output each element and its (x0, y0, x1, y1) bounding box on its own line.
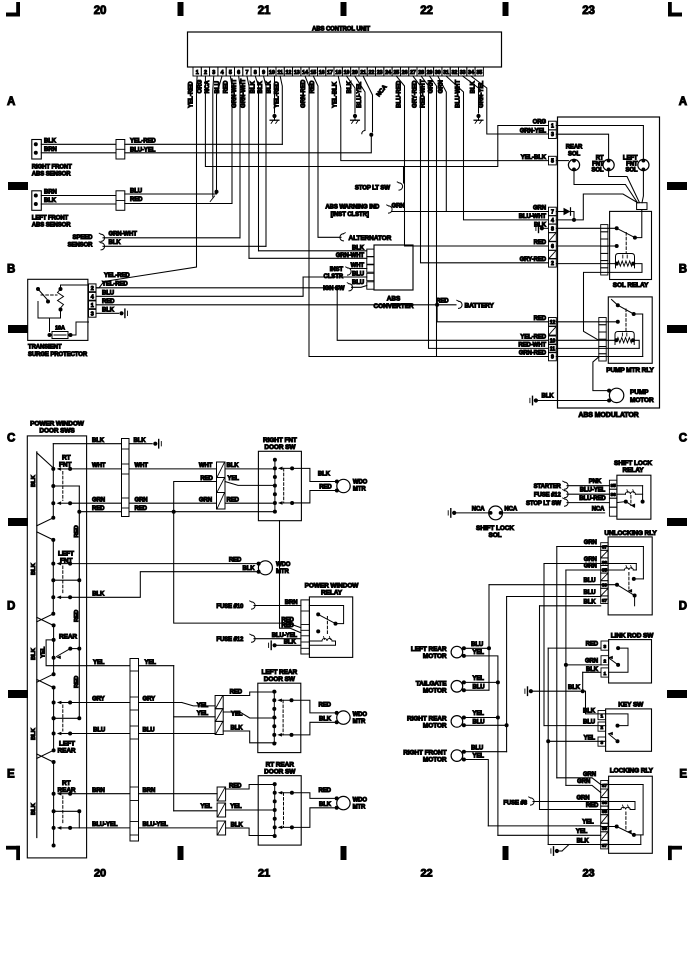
svg-text:BLK: BLK (583, 708, 596, 714)
link rod switch pins (601, 641, 609, 677)
GRN net 2 vertical (543, 564, 545, 726)
svg-text:22: 22 (420, 5, 433, 17)
svg-text:20: 20 (94, 5, 107, 17)
label GRN-YEL at modulator (520, 128, 547, 134)
svg-text:BLK: BLK (102, 307, 115, 313)
wire door sw RED to window motor 4 (292, 788, 337, 798)
svg-text:RED: RED (74, 525, 80, 537)
left rear door switch (258, 669, 301, 753)
rail label BLK (31, 474, 37, 487)
ground for lock switches (525, 672, 606, 714)
wire pump relay coil return to pin11 (556, 340, 639, 348)
wire door feed to window relay (280, 521, 301, 633)
pump relay common contact (612, 300, 620, 308)
svg-text:B: B (679, 264, 687, 276)
wire RED into rt rear door sw (226, 783, 276, 789)
solenoid junction block (637, 203, 647, 210)
svg-text:SHIFT LOCK: SHIFT LOCK (476, 525, 514, 532)
svg-text:YEL-RED: YEL-RED (274, 81, 280, 108)
svg-text:SOL: SOL (591, 168, 603, 174)
svg-text:POWER WINDOW: POWER WINDOW (30, 420, 85, 427)
svg-text:YEL: YEL (473, 676, 485, 682)
right front ABS sensor (32, 138, 72, 177)
wire speed sensor GRN-WHT (103, 237, 240, 239)
wire right front motor YEL (464, 760, 488, 826)
pin 30 wire GRN (to ABS warning net) (438, 76, 447, 212)
wire GRN 1 to unlocking relay (557, 540, 601, 547)
rail label BLK (31, 647, 37, 660)
wire tailgate motor BLU (464, 689, 489, 691)
shift lock relay strip (609, 480, 617, 516)
stop light switch feed BLU-RED (526, 496, 609, 507)
svg-text:BLK: BLK (231, 725, 244, 731)
svg-text:RED-WHT: RED-WHT (518, 343, 546, 349)
wire RT REAR mid row to bus stub (54, 809, 82, 828)
svg-text:WHT: WHT (199, 463, 213, 469)
pin 5 wire RED (to left front sensor) (224, 76, 232, 204)
door switch mid connector (RT FNT) (217, 462, 226, 509)
wire BLK to locking relay (548, 839, 601, 845)
svg-text:SOL RELAY: SOL RELAY (613, 282, 649, 289)
svg-text:RED: RED (92, 506, 105, 512)
fuse 8 feed to locking relay (503, 796, 600, 807)
svg-text:GRY-RED: GRY-RED (413, 80, 419, 108)
svg-text:BLK: BLK (267, 80, 273, 93)
svg-text:87: 87 (602, 545, 608, 551)
svg-text:RED: RED (102, 299, 115, 305)
svg-text:ABS SENSOR: ABS SENSOR (32, 171, 71, 177)
svg-text:BLK: BLK (92, 591, 105, 597)
link rod switch internals (608, 646, 628, 672)
svg-text:BLU: BLU (130, 189, 142, 195)
RED bus vertical (77, 486, 81, 720)
wire RED row to window motor 2 (70, 558, 259, 564)
svg-text:ABS WARNING IND: ABS WARNING IND (325, 205, 380, 211)
svg-text:20: 20 (352, 70, 358, 76)
svg-text:22: 22 (420, 868, 432, 880)
svg-text:GRN: GRN (135, 498, 148, 504)
pin 19 wire BLK to ground (346, 76, 355, 113)
svg-text:10: 10 (269, 70, 275, 76)
svg-text:SOL: SOL (568, 152, 580, 158)
inline connector pin20/sensor (362, 131, 374, 137)
svg-text:YEL: YEL (231, 712, 243, 718)
svg-text:12: 12 (286, 70, 292, 76)
wire RED into left rear door sw (223, 689, 276, 695)
pin 11 wire YEL-RED (to right front sensor) (274, 76, 282, 144)
rail label BLK (31, 802, 37, 815)
svg-text:GRN: GRN (576, 796, 589, 802)
svg-text:CONVERTER: CONVERTER (374, 303, 414, 310)
svg-text:3: 3 (91, 311, 94, 317)
svg-text:87: 87 (602, 843, 608, 849)
svg-text:BLK: BLK (31, 727, 37, 740)
pump motor relay box (606, 297, 654, 374)
power window door switches box (27, 420, 86, 858)
label BLK at key sw (583, 708, 596, 714)
svg-text:RED: RED (229, 558, 242, 564)
shift lock solenoid (448, 506, 605, 539)
key switch internals (606, 714, 628, 743)
wire sol relay coil return (584, 264, 643, 341)
svg-text:NCA: NCA (504, 506, 517, 512)
svg-text:RT: RT (62, 454, 71, 461)
svg-text:86: 86 (611, 492, 617, 498)
svg-text:11: 11 (277, 70, 283, 76)
svg-text:IGN SW: IGN SW (323, 286, 345, 292)
svg-text:BLU-RED: BLU-RED (579, 496, 606, 502)
svg-text:4: 4 (551, 218, 554, 224)
svg-text:YEL: YEL (584, 735, 596, 741)
svg-text:BLK: BLK (44, 138, 57, 144)
svg-text:UNLOCKING RLY: UNLOCKING RLY (604, 530, 657, 537)
pin 8 wire BLK (to ABS converter) (251, 76, 259, 251)
pin 33 wire BLK to ground (463, 76, 479, 113)
svg-text:MOTOR: MOTOR (630, 397, 654, 404)
pin 21 wire NCA (363, 76, 389, 132)
svg-text:RT REAR: RT REAR (266, 762, 295, 769)
svg-text:GRN-RED: GRN-RED (301, 79, 307, 108)
svg-text:9: 9 (262, 70, 265, 76)
svg-text:BLK: BLK (31, 802, 37, 815)
sol relay coil (615, 254, 636, 268)
label YEL-RED at modulator (520, 335, 546, 341)
svg-text:7: 7 (245, 70, 248, 76)
svg-text:BLK: BLK (471, 80, 477, 93)
svg-text:RED: RED (534, 240, 547, 246)
pin 31 wire BLU-WHT (to modulator pin 4) (446, 76, 548, 220)
wire left rear motor BLU (464, 646, 491, 650)
wire YEL to key sw (548, 735, 605, 741)
BLK net vertical (539, 606, 541, 810)
wire BLK window top row (53, 438, 152, 444)
pin 3 wire NCA (205, 76, 215, 202)
svg-text:BLU: BLU (143, 728, 155, 734)
svg-text:21: 21 (258, 5, 271, 17)
wire pin2 to sol relay coil (556, 263, 614, 265)
rail label BLK (31, 562, 37, 575)
svg-text:30: 30 (602, 583, 608, 589)
svg-text:RED: RED (281, 623, 294, 629)
svg-text:YEL: YEL (473, 711, 485, 717)
svg-text:BLU-YEL: BLU-YEL (92, 822, 118, 828)
svg-text:ABS MODULATOR: ABS MODULATOR (578, 412, 638, 419)
svg-text:BLK: BLK (31, 562, 37, 575)
svg-text:DOOR SWS: DOOR SWS (39, 428, 75, 435)
svg-text:BLU: BLU (473, 684, 485, 690)
pump relay coil (614, 332, 635, 345)
power window relay strip (301, 600, 310, 654)
speed sensor (68, 231, 138, 250)
svg-text:BLU: BLU (93, 728, 105, 734)
svg-text:BLK: BLK (44, 198, 57, 204)
wire mid row to RED bus (53, 485, 79, 487)
svg-text:YEL: YEL (201, 804, 213, 810)
link rod switch box (609, 632, 655, 683)
unlocking relay strip (601, 543, 608, 604)
ABS modulator connector pins (549, 121, 557, 361)
shift lock relay box (614, 460, 652, 519)
svg-text:RIGHT FRONT: RIGHT FRONT (403, 750, 446, 757)
wire right front sensor BLK/YEL-RED (41, 138, 282, 144)
window relay BLK ground (269, 640, 301, 650)
ground window BLK (153, 440, 161, 448)
svg-text:LINK ROD SW: LINK ROD SW (611, 632, 655, 639)
YEL net vertical (locks) (496, 682, 500, 835)
wire surge protector pin 3 BLK to ground (96, 307, 119, 313)
wire BRN row (70, 788, 217, 794)
stop light switch (top) (355, 167, 404, 192)
fuse 12 feed BLU-YEL (216, 633, 301, 643)
svg-text:16: 16 (319, 70, 325, 76)
wire BLK into rt rear door sw (226, 822, 276, 835)
wire pump motor BLK to ground (536, 393, 609, 400)
pump relay dashed link (625, 309, 627, 331)
svg-text:BLU: BLU (583, 720, 595, 726)
svg-text:YEL: YEL (93, 660, 105, 666)
pin 34 wire GRN-YEL (to modulator pin 3) (471, 76, 549, 134)
svg-text:YEL-RED: YEL-RED (189, 81, 195, 108)
sol relay dashed link (625, 233, 627, 253)
svg-text:TRANSIENT: TRANSIENT (28, 345, 62, 351)
label GRN at modulator (533, 206, 546, 212)
svg-text:LEFT REAR: LEFT REAR (262, 669, 298, 676)
shift lock relay internals (617, 486, 645, 508)
svg-text:GRN-WHT: GRN-WHT (109, 231, 138, 237)
label RED at modulator (534, 316, 547, 322)
ground at pin 33 (474, 114, 483, 124)
wire GRN 2 to locking relay (566, 779, 601, 792)
RT REAR window switch (52, 760, 76, 848)
fuse 12 feed BLU-YEL (shift lock) (534, 488, 609, 499)
wire speed sensor BLK (103, 245, 266, 247)
svg-text:GRY: GRY (92, 697, 105, 703)
wire RED row (79, 506, 275, 514)
wire BLU row (70, 728, 215, 734)
svg-text:BLK: BLK (231, 822, 244, 828)
label RED-WHT at modulator (518, 343, 546, 349)
svg-text:GRN: GRN (438, 80, 444, 93)
svg-text:POWER WINDOW: POWER WINDOW (305, 583, 360, 590)
wire door sw RED to window motor (292, 484, 337, 503)
pin 20 wire BLU-YEL (to inline connector) (355, 76, 365, 131)
right front lock motor (403, 745, 484, 763)
svg-text:GRN: GRN (584, 540, 597, 546)
wire YEL net to locking relay (498, 829, 601, 835)
svg-text:WHT: WHT (92, 463, 106, 469)
ABS control unit pin row 1-35 (193, 67, 483, 76)
wire pin12 to pump relay contact 2 (556, 320, 620, 324)
svg-text:3: 3 (551, 132, 554, 138)
svg-text:22: 22 (368, 70, 374, 76)
svg-text:85: 85 (611, 483, 617, 489)
svg-text:BLK: BLK (258, 80, 264, 93)
svg-text:15: 15 (310, 70, 316, 76)
wire YEL into left rear door sw (223, 712, 276, 718)
wire RED down to window relay (174, 512, 301, 628)
rail top diagonal (37, 453, 54, 468)
svg-text:WDO: WDO (353, 480, 368, 486)
svg-text:7: 7 (551, 210, 554, 216)
wire WHT-BLK into door switch (225, 463, 275, 469)
GRN net 1 vertical (556, 547, 558, 778)
svg-text:D: D (7, 601, 15, 613)
wire GRN 1 to locking relay (557, 772, 601, 785)
svg-text:BLK: BLK (577, 839, 590, 845)
window switch common rail BLK (36, 452, 38, 838)
wire door sw BLK to window motor (292, 468, 337, 481)
wire YEL to left rear door sw (174, 703, 215, 717)
unlocking relay internals (601, 547, 644, 606)
wire surge protector pin 4 BLU (96, 277, 367, 296)
ABS converter (374, 245, 414, 310)
wire right front motor BLU (464, 751, 507, 753)
rail chevron to group top (37, 754, 54, 762)
wire pump relay contact to pin9 row (634, 314, 643, 357)
svg-text:REAR: REAR (58, 748, 76, 755)
svg-text:ALTERNATOR: ALTERNATOR (349, 235, 392, 242)
svg-text:BLK: BLK (92, 438, 105, 444)
wire YEL into rt rear door sw (174, 804, 276, 811)
svg-text:RED: RED (130, 197, 143, 203)
svg-text:GRN-WHT: GRN-WHT (336, 253, 365, 259)
wire pin10 to pump relay coil (556, 339, 614, 341)
svg-text:BLK: BLK (31, 474, 37, 487)
svg-text:SPEED: SPEED (73, 235, 94, 241)
pin 1 wire YEL-RED (to surge protector) (96, 76, 197, 288)
svg-text:BLK: BLK (251, 80, 257, 93)
tailgate lock motor (416, 676, 485, 694)
svg-text:BLU-YEL: BLU-YEL (130, 147, 156, 153)
wire BLU to key sw (544, 720, 606, 726)
svg-text:5: 5 (551, 159, 554, 165)
svg-text:GRN: GRN (584, 557, 597, 563)
svg-text:14: 14 (302, 70, 308, 76)
sol relay contact arm (617, 228, 637, 239)
svg-text:YEL: YEL (473, 650, 485, 656)
wire BLU 2 to unlocking relay (507, 590, 601, 597)
svg-text:NCA: NCA (205, 80, 211, 94)
svg-text:YEL: YEL (40, 646, 46, 658)
svg-text:YEL: YEL (576, 829, 588, 835)
label NCA at shift lock relay (592, 507, 605, 513)
svg-text:24: 24 (385, 70, 391, 76)
inline connector right front sensor (116, 140, 125, 160)
svg-text:NCA: NCA (472, 506, 485, 512)
rail chevron from group bottom (37, 614, 54, 622)
label ORG at modulator (533, 120, 547, 126)
svg-text:13: 13 (294, 70, 300, 76)
svg-text:WHT: WHT (135, 463, 149, 469)
svg-text:19: 19 (344, 70, 350, 76)
window motor left front (257, 561, 291, 575)
wire YEL row (46, 640, 174, 666)
label YEL-RED on diagonal (104, 273, 130, 279)
wire converter BLK (259, 245, 367, 251)
bus label RED (74, 610, 80, 622)
label GRN-RED at modulator (519, 351, 547, 357)
pin 25 wire BLU-RED (to modulator pin 6) (396, 76, 548, 246)
svg-text:BLK: BLK (31, 647, 37, 660)
ABS warning indicator (325, 203, 404, 218)
starter feed PNK (534, 479, 610, 490)
svg-text:BLK: BLK (284, 640, 297, 646)
wire RED to locking relay (540, 803, 601, 809)
svg-text:BLU-YEL: BLU-YEL (580, 488, 606, 494)
svg-text:BLU-WHT: BLU-WHT (456, 80, 462, 108)
wire WHT row (70, 463, 216, 469)
svg-text:86: 86 (602, 560, 608, 566)
left front ABS sensor (32, 190, 71, 229)
svg-text:26: 26 (402, 70, 408, 76)
svg-text:SOL: SOL (488, 532, 501, 539)
wire pin6 to sol relay contact 2 (556, 244, 618, 248)
wire surge protector pin 1 RED (battery feed) (96, 299, 437, 305)
wire right front sensor BRN/BLU-YEL (41, 137, 371, 154)
rail chevron from group bottom (37, 518, 54, 526)
rear solenoid (566, 145, 583, 172)
left front solenoid (623, 156, 649, 174)
svg-text:BLK: BLK (319, 716, 332, 722)
svg-text:BLU-YEL: BLU-YEL (357, 82, 363, 108)
svg-text:BRN: BRN (143, 788, 156, 794)
rail chevron from group bottom (37, 750, 54, 758)
svg-text:A: A (7, 96, 15, 108)
ground at pin 10 (270, 114, 279, 124)
pin 14 wire GRN-RED (to modulator pin 9) (301, 76, 549, 357)
wire LEFT FNT mid row to bus (53, 579, 79, 581)
wire left front solenoid to junction (642, 171, 643, 203)
svg-text:2: 2 (204, 70, 207, 76)
wire LEFT REAR mid row to bus (52, 716, 80, 720)
locking relay internals (601, 785, 643, 845)
svg-text:ABS: ABS (387, 296, 401, 303)
svg-text:PUMP MTR RLY: PUMP MTR RLY (606, 367, 654, 374)
svg-text:D: D (679, 601, 687, 613)
GRN net 3 vertical (564, 570, 568, 785)
wire modulator pin3 to rt front solenoid (556, 134, 608, 159)
svg-text:MOTOR: MOTOR (423, 723, 447, 730)
svg-text:LOCKING RLY: LOCKING RLY (610, 767, 654, 774)
label RED at modulator (534, 240, 547, 246)
wire BLK to unlocking relay (540, 599, 601, 606)
svg-text:BLK: BLK (109, 240, 122, 246)
svg-text:BLU: BLU (471, 642, 483, 648)
svg-text:BLU: BLU (583, 578, 595, 584)
rail chevron to group top (37, 532, 54, 540)
svg-text:LEFT REAR: LEFT REAR (411, 646, 447, 653)
pin 27 wire GRY-RED (to modulator pin 2) (413, 76, 549, 263)
svg-text:BLU-YEL: BLU-YEL (143, 822, 169, 828)
svg-text:9: 9 (551, 355, 554, 361)
RED net vertical (546, 648, 550, 844)
svg-text:GRY-RED: GRY-RED (520, 257, 547, 263)
svg-text:GRN: GRN (583, 772, 596, 778)
wire GRN to link rod sw (566, 658, 601, 665)
window connector strip lower (130, 659, 139, 842)
svg-text:SOL: SOL (625, 168, 637, 174)
diode at modulator pin 7 (556, 208, 574, 220)
key switch box (606, 701, 652, 751)
svg-text:BLU: BLU (352, 272, 364, 278)
ground wire at modulator pin 8 (536, 224, 549, 232)
wire door sw RED to window motor 3 (292, 700, 337, 713)
wire modulator pin1 to left front solenoid (556, 126, 643, 160)
svg-text:GRN: GRN (199, 498, 212, 504)
bus label RED (74, 676, 80, 688)
svg-text:GRN-WHT: GRN-WHT (232, 79, 238, 108)
wire battery RED to modulator pin 12 (437, 305, 548, 322)
